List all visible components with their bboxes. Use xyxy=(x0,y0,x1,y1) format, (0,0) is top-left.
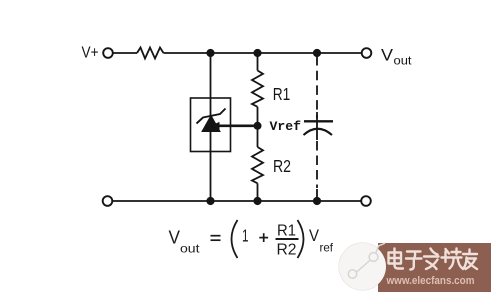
svg-text:1: 1 xyxy=(242,225,249,245)
shunt reference U1 triangle xyxy=(202,116,220,132)
node Vout terminal xyxy=(362,48,372,58)
wire R1 top lead xyxy=(257,53,259,71)
watermark circle over box xyxy=(339,243,386,290)
shunt reference U1 box xyxy=(191,98,231,152)
node V+ terminal xyxy=(103,48,113,58)
svg-text:www.elecfans.com: www.elecfans.com xyxy=(386,275,475,287)
shunt reference U1 zener bar xyxy=(197,109,226,124)
svg-text:R1: R1 xyxy=(277,223,296,240)
svg-text:V: V xyxy=(169,228,181,248)
svg-text:out: out xyxy=(394,54,413,68)
watermark elecfans box xyxy=(378,243,491,292)
char 子 xyxy=(406,252,422,270)
resistor R2 xyxy=(252,147,263,183)
resistor series (unlabeled) xyxy=(137,48,164,59)
watermark chinese text 电子发烧友 (drawn strokes) xyxy=(389,249,478,270)
wire R2 bottom lead xyxy=(257,183,259,201)
svg-text:V: V xyxy=(381,46,394,65)
junction top-middle xyxy=(253,49,261,57)
wire R2 top lead xyxy=(257,126,259,147)
wire R1 bottom lead xyxy=(257,107,259,126)
svg-text:ref: ref xyxy=(320,241,334,255)
wire top rail right segment xyxy=(164,52,362,54)
svg-text:V: V xyxy=(309,227,319,245)
wire capacitor center solid xyxy=(316,112,318,140)
formula Vout = (1 + R1/R2) Vref xyxy=(169,220,334,259)
svg-text:R1: R1 xyxy=(273,84,291,104)
svg-text:out: out xyxy=(180,242,200,256)
char 电 xyxy=(389,249,404,269)
junction bottom-left xyxy=(206,197,214,205)
capacitor C1 curved plate xyxy=(304,129,333,135)
wire capacitor branch upper dashed xyxy=(316,56,318,118)
capacitor C1 top plate xyxy=(304,120,333,122)
node ground-right terminal xyxy=(361,196,371,206)
wire REF arm xyxy=(214,125,258,128)
char 友 xyxy=(463,250,477,270)
node Vref junction xyxy=(254,122,262,130)
REF arrowhead xyxy=(211,122,220,130)
svg-text:Vref: Vref xyxy=(270,120,302,134)
junction top-right xyxy=(313,49,321,57)
watermark ghost logo arc xyxy=(339,243,386,290)
svg-text:V+: V+ xyxy=(82,45,99,62)
wire bottom rail xyxy=(113,200,362,202)
svg-text:R2: R2 xyxy=(273,156,291,176)
wire shunt branch vertical xyxy=(210,53,212,201)
wire top rail left segment xyxy=(113,52,137,54)
junction bottom-middle xyxy=(253,197,261,205)
junction bottom-right xyxy=(313,197,321,205)
char 烧 xyxy=(442,249,463,269)
char 发 xyxy=(424,249,439,270)
node ground-left terminal xyxy=(103,196,113,206)
wire capacitor branch lower dashed xyxy=(316,141,318,188)
junction top-left xyxy=(206,49,214,57)
svg-text:R2: R2 xyxy=(277,242,297,259)
resistor R1 xyxy=(252,71,263,107)
